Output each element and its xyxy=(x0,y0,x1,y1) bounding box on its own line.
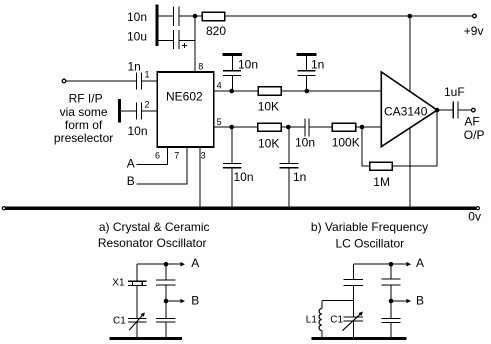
capacitor (oscillator-a divider bottom) xyxy=(156,318,175,322)
wire: C 1n to pin 1 xyxy=(142,80,157,82)
wire: series cap to 100K xyxy=(310,126,333,128)
wire: C 1n to pin-4 net xyxy=(306,76,308,91)
svg-text:LC Oscillator: LC Oscillator xyxy=(335,237,404,251)
wire: output to C 1uF xyxy=(437,109,453,111)
wire: ground bar to C 10n xyxy=(231,56,233,70)
svg-text:10K: 10K xyxy=(258,100,279,114)
svg-text:B: B xyxy=(127,174,135,188)
wire: oscillator-a left branch down to crystal xyxy=(136,264,138,281)
wire: oscillator-b top rail to arrow A xyxy=(353,263,407,265)
wire: RF input to C 1n xyxy=(66,80,136,82)
wire: B node down to divider bottom cap xyxy=(165,301,167,318)
wire: series cap down to C1 xyxy=(352,286,354,317)
capacitor C 1n (shunt to 0v) xyxy=(280,163,299,167)
svg-text:AF: AF xyxy=(464,115,479,129)
ground bar for pin-4 10n decoupling cap xyxy=(223,53,243,56)
wire: ground bar to C 1n xyxy=(306,56,308,70)
svg-text:4: 4 xyxy=(217,81,222,91)
node: supply rail tap for op-amp V+ xyxy=(408,14,413,19)
wire: divider bottom cap to ground bar (oscillator b) xyxy=(390,323,392,338)
svg-text:0v: 0v xyxy=(468,210,481,224)
arrowhead to A xyxy=(180,262,185,267)
arrowhead to B xyxy=(180,299,185,304)
svg-text:2: 2 xyxy=(145,100,150,110)
svg-text:C1: C1 xyxy=(330,315,343,326)
arrowhead to B (oscillator b) xyxy=(406,299,411,304)
terminal +9v xyxy=(473,14,477,18)
terminal: 0v rail left end xyxy=(2,207,5,210)
capacitor C 10u (electrolytic decoupling) xyxy=(174,30,179,49)
resistor 10K (pin 4 net) xyxy=(258,87,281,95)
wire: 10K to series cap xyxy=(281,126,304,128)
wire: B node to arrowhead (oscillator b) xyxy=(391,300,407,302)
svg-text:via some: via some xyxy=(60,105,108,119)
wire: divider top cap to B node (oscillator b) xyxy=(390,285,392,301)
terminal: 0v rail right end xyxy=(476,207,479,210)
svg-text:820: 820 xyxy=(206,24,226,38)
ground bar for supply decoupling caps xyxy=(156,5,159,47)
wire: oscillator-b middle branch down xyxy=(352,264,354,279)
capacitor C 10n (pin 2 bypass) xyxy=(137,103,142,120)
wire: ground bar to C 10n xyxy=(121,110,136,112)
resistor 10K (pin 5 net) xyxy=(258,123,282,131)
svg-text:1n: 1n xyxy=(128,60,141,74)
wire: C 1n to 0v rail xyxy=(288,168,290,207)
wire: ground bar to C 10u xyxy=(159,40,173,42)
svg-text:b) Variable Frequency: b) Variable Frequency xyxy=(311,220,428,234)
svg-text:A: A xyxy=(127,157,135,171)
wire: oscillator-a top rail to arrow A xyxy=(137,263,181,265)
wire: pin 4 output net to op-amp xyxy=(214,90,381,92)
wire: oscillator-b right branch down xyxy=(390,264,392,279)
svg-text:+9v: +9v xyxy=(464,24,484,38)
wire: ground bar to C 10n xyxy=(159,15,173,17)
wire: B node down to divider bottom cap (oscillator b) xyxy=(390,301,392,318)
ground bar for pin-2 bypass cap xyxy=(118,99,121,122)
node: op-amp output junction xyxy=(435,108,440,113)
node: oscillator-a output B junction xyxy=(164,299,169,304)
wire: B node to arrowhead xyxy=(166,300,181,302)
svg-text:B: B xyxy=(191,294,199,308)
svg-text:1M: 1M xyxy=(373,175,390,189)
ground bar (oscillator b) xyxy=(312,337,407,340)
svg-text:10n: 10n xyxy=(127,10,147,24)
svg-text:RF I/P: RF I/P xyxy=(69,92,103,106)
capacitor (oscillator-a divider top) xyxy=(156,280,175,285)
0v ground rail xyxy=(6,207,476,210)
svg-text:10K: 10K xyxy=(258,136,279,150)
svg-text:form of: form of xyxy=(65,118,103,132)
capacitor C 1n (RF input coupling, pin 1) xyxy=(137,73,142,90)
capacitor C 1uF (AF output coupling) xyxy=(453,102,458,119)
wire: pin-5 node down to C 10n xyxy=(231,127,233,163)
op-amp U2 CA3140 xyxy=(381,72,437,147)
svg-text:1n: 1n xyxy=(293,170,306,184)
ground bar (oscillator a) xyxy=(110,337,182,340)
svg-text:6: 6 xyxy=(155,151,160,161)
wire: L1 bottom lead to ground bar xyxy=(321,331,323,338)
wire: C 10n to 0v rail xyxy=(231,168,233,207)
resistor 1M (feedback) xyxy=(370,162,392,170)
node: feedback junction xyxy=(360,125,365,130)
capacitor C 10n (pin 5 to 0v) xyxy=(223,163,242,167)
svg-text:a) Crystal & Ceramic: a) Crystal & Ceramic xyxy=(99,220,210,234)
svg-text:A: A xyxy=(416,256,424,270)
svg-text:1: 1 xyxy=(145,70,150,80)
svg-text:Resonator Oscillator: Resonator Oscillator xyxy=(98,236,207,250)
wire: C 10n to +9v node xyxy=(179,15,193,17)
wire: oscillator-a right branch down to divider xyxy=(165,264,167,280)
svg-text:10u: 10u xyxy=(127,30,147,44)
svg-text:10n: 10n xyxy=(234,170,254,184)
arrowhead to A (oscillator b) xyxy=(406,262,411,267)
node: pin5 / 10n junction xyxy=(229,125,234,130)
node: +9v junction at 820 / decoupling caps xyxy=(193,14,198,19)
polarity plus sign of C 10u xyxy=(182,43,187,48)
node: oscillator-a output A junction xyxy=(164,262,169,267)
wire: crystal to C1 xyxy=(136,286,138,318)
wire: +9v node to resistor 820 xyxy=(195,15,202,17)
svg-text:7: 7 xyxy=(174,151,179,161)
wire: feedback node down and across to 1M xyxy=(362,127,370,166)
wire: 100K to op-amp inverting input xyxy=(356,126,382,128)
capacitor C 1n (pin 4 decoupling) xyxy=(297,71,315,76)
wire: L1 top to middle branch xyxy=(322,300,354,302)
node: 1n shunt tap junction xyxy=(286,125,291,130)
wire: A to NE602 pin 6 xyxy=(137,147,168,165)
svg-text:B: B xyxy=(416,294,424,308)
capacitor C 10n (series coupling to op-amp) xyxy=(305,118,309,136)
wire: C 10u to pin-8 feed line xyxy=(179,40,195,42)
svg-text:NE602: NE602 xyxy=(166,90,203,104)
svg-text:L1: L1 xyxy=(306,315,318,326)
svg-text:O/P: O/P xyxy=(464,128,485,142)
wire: C1 to ground bar (oscillator b) xyxy=(352,321,354,337)
wire: C 10n to pin 2 xyxy=(142,110,157,112)
wire: C1 to ground bar xyxy=(136,322,138,337)
wire: divider top cap to B node xyxy=(165,285,167,301)
wire: op-amp V- down to 0v rail xyxy=(409,128,411,207)
wire: pin 5 to 10K xyxy=(214,126,258,128)
capacitor C 10n (supply decoupling) xyxy=(174,7,179,26)
svg-text:10n: 10n xyxy=(295,136,315,150)
svg-text:3: 3 xyxy=(201,151,206,161)
capacitor C 10n (pin 4 decoupling) xyxy=(223,71,241,76)
svg-text:preselector: preselector xyxy=(54,131,113,145)
svg-text:8: 8 xyxy=(198,62,203,72)
wire: L1 top lead xyxy=(321,301,323,309)
svg-text:1n: 1n xyxy=(311,58,324,72)
node: pin4 / 10n decoupling junction xyxy=(229,89,234,94)
node: oscillator-b output A junction xyxy=(389,262,394,267)
wire: 1M to op-amp output xyxy=(392,110,437,166)
resistor 100K (op-amp input) xyxy=(332,123,355,131)
wire: divider bottom cap to ground bar xyxy=(165,322,167,337)
svg-text:A: A xyxy=(191,256,199,270)
coil of L1 xyxy=(319,309,322,331)
resistor 820 xyxy=(202,12,225,20)
svg-text:1uF: 1uF xyxy=(444,85,465,99)
wire: +9v supply rail xyxy=(225,15,473,17)
wire: C 1uF to AF terminal xyxy=(458,109,471,111)
IC U1 NE602 xyxy=(157,72,214,147)
wire: +9v node down to NE602 pin 8 xyxy=(194,16,196,72)
capacitor (oscillator-b divider top) xyxy=(382,279,401,285)
svg-text:10n: 10n xyxy=(128,124,148,138)
svg-text:10n: 10n xyxy=(238,58,258,72)
wire: NE602 pin 3 to 0v rail xyxy=(199,147,201,207)
wire: +9v rail down to op-amp V+ xyxy=(409,16,411,92)
node: oscillator-b output B junction xyxy=(389,299,394,304)
wire: tap node down to C 1n xyxy=(288,127,290,163)
svg-text:100K: 100K xyxy=(332,136,360,150)
wire: C 10n to pin-4 net xyxy=(231,76,233,91)
ground bar for pin-4 1n decoupling cap xyxy=(297,53,317,56)
svg-text:CA3140: CA3140 xyxy=(384,104,428,118)
terminal: RF input xyxy=(62,79,66,83)
svg-text:C1: C1 xyxy=(113,316,126,327)
capacitor (oscillator-b divider bottom) xyxy=(382,318,401,322)
svg-text:5: 5 xyxy=(217,117,222,127)
node: pin4 / 1n decoupling junction xyxy=(305,89,310,94)
capacitor (oscillator-b series) xyxy=(344,280,363,286)
wire: B to NE602 pin 7 xyxy=(137,147,188,184)
terminal: AF output xyxy=(472,108,476,112)
svg-text:X1: X1 xyxy=(112,278,125,289)
